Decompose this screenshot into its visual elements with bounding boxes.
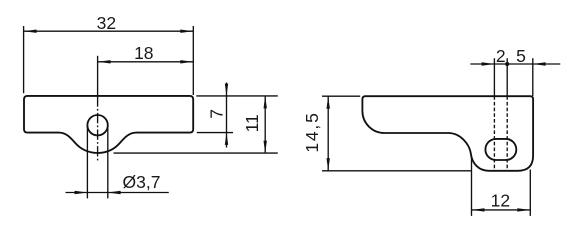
svg-text:2: 2	[496, 46, 506, 66]
svg-text:32: 32	[97, 13, 116, 33]
right view part outline	[362, 96, 533, 171]
svg-text:14,5: 14,5	[302, 113, 322, 153]
svg-text:18: 18	[134, 43, 153, 63]
hidden hole lines right view (dashed)	[493, 96, 495, 170]
centerline of hole (dash-dot)	[97, 96, 99, 162]
left view part outline	[24, 96, 193, 153]
32 dim extension line left	[23, 26, 25, 93]
arrowhead 32 left	[24, 30, 37, 33]
Ø3.7 dimension line with leader	[66, 192, 169, 194]
12 right extension line	[529, 170, 531, 216]
arrowhead 14,5 bottom	[327, 158, 330, 171]
7 bottom extension line	[197, 132, 233, 134]
dot between 2 and 5 dims	[505, 62, 509, 66]
arrowhead 14,5 top	[327, 96, 330, 109]
arrowhead Ø3.7 left (outside, pointing right)	[75, 191, 88, 194]
14,5 top extension line	[322, 95, 360, 97]
arrowhead 12 left	[472, 208, 485, 211]
7 dimension line (arrows outside)	[226, 83, 228, 148]
5 dim extension line right	[532, 58, 534, 96]
arrowhead 11 top	[264, 96, 267, 109]
32/18 dim extension line right	[192, 26, 194, 95]
2/5 dim extension line a	[493, 58, 495, 96]
arrowhead 32 right	[180, 30, 193, 33]
7/11 top extension line	[196, 95, 277, 97]
14,5 bottom extension line	[322, 170, 472, 172]
svg-text:5: 5	[516, 46, 526, 66]
svg-text:11: 11	[242, 114, 262, 132]
2/5 dim extension line b	[506, 58, 508, 96]
arrowhead 18 right	[180, 60, 193, 63]
14,5 dimension line	[327, 96, 329, 171]
18 dim extension line (hole center)	[97, 56, 99, 95]
11 dimension line	[264, 96, 266, 153]
arrowhead Ø3.7 right (outside, pointing left)	[108, 191, 121, 194]
32 dimension line	[24, 30, 194, 32]
arrowhead 12 right	[517, 208, 530, 211]
arrowhead 5 right (outside, pointing left)	[533, 62, 546, 65]
2/5 dimension line	[470, 63, 560, 65]
svg-text:Ø3,7: Ø3,7	[123, 172, 161, 192]
11 bottom extension line	[114, 152, 278, 154]
Ø3.7 tangent extension line right	[107, 125, 109, 198]
slot/obround opening in right view lobe	[485, 139, 516, 160]
Ø3.7 tangent extension line left	[86, 125, 88, 198]
arrowhead 11 bottom	[264, 141, 267, 154]
hole circle Ø3.7 left view	[87, 115, 107, 135]
arrowhead 7 bottom (outside, pointing up)	[225, 133, 228, 145]
12 dimension line	[472, 209, 531, 211]
18 dimension line	[98, 61, 194, 63]
arrowhead 18 left	[98, 60, 111, 63]
arrowhead 2 left (outside, pointing right)	[482, 62, 495, 65]
12 left extension line	[471, 156, 473, 216]
arrowhead 7 top (outside, pointing down)	[225, 84, 228, 96]
svg-text:7: 7	[206, 109, 226, 119]
svg-text:12: 12	[491, 191, 510, 211]
